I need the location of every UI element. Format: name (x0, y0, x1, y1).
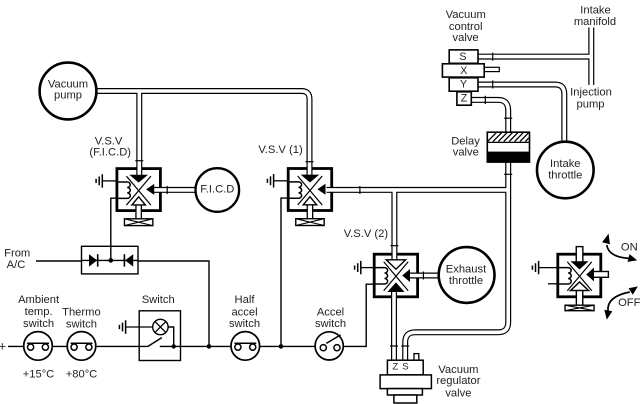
svg-text:regulator: regulator (436, 375, 480, 387)
svg-text:valve: valve (453, 147, 479, 159)
svg-text:V.S.V: V.S.V (95, 135, 123, 147)
svg-text:V.S.V (1): V.S.V (1) (258, 144, 303, 156)
svg-text:Y: Y (460, 79, 467, 91)
svg-text:Injection: Injection (570, 87, 612, 99)
svg-text:+: + (0, 339, 6, 354)
svg-text:throttle: throttle (449, 275, 483, 287)
svg-text:ON: ON (621, 242, 638, 254)
svg-text:Vacuum: Vacuum (446, 9, 486, 21)
svg-text:S: S (402, 362, 408, 373)
svg-text:OFF: OFF (618, 297, 640, 309)
svg-text:Ambient: Ambient (18, 294, 60, 306)
svg-text:X: X (460, 65, 467, 77)
svg-text:Vacuum: Vacuum (48, 78, 88, 90)
svg-text:(F.I.C.D): (F.I.C.D) (89, 147, 131, 159)
svg-text:throttle: throttle (548, 169, 582, 181)
svg-text:switch: switch (23, 318, 54, 330)
svg-text:F.I.C.D: F.I.C.D (200, 183, 234, 195)
svg-text:S: S (459, 51, 466, 63)
svg-text:Z: Z (461, 93, 468, 105)
svg-text:control: control (449, 21, 483, 33)
svg-text:V.S.V (2): V.S.V (2) (344, 228, 389, 240)
svg-text:switch: switch (229, 318, 260, 330)
svg-text:Intake: Intake (550, 158, 580, 170)
svg-text:switch: switch (66, 318, 97, 330)
svg-text:Thermo: Thermo (62, 306, 101, 318)
svg-text:accel: accel (231, 306, 257, 318)
svg-text:Switch: Switch (142, 294, 175, 306)
svg-text:Intake: Intake (580, 5, 610, 17)
svg-text:Vacuum: Vacuum (438, 364, 478, 376)
svg-text:A/C: A/C (7, 259, 26, 271)
svg-text:From: From (4, 248, 30, 260)
svg-text:Half: Half (235, 294, 256, 306)
svg-text:pump: pump (54, 90, 82, 102)
svg-text:Exhaust: Exhaust (446, 263, 487, 275)
svg-text:+15°C: +15°C (23, 369, 55, 381)
svg-text:+80°C: +80°C (66, 369, 98, 381)
svg-text:Z: Z (392, 362, 398, 373)
svg-text:valve: valve (453, 32, 479, 44)
svg-text:valve: valve (445, 388, 471, 400)
svg-text:pump: pump (577, 99, 605, 111)
svg-text:switch: switch (315, 318, 346, 330)
svg-text:Accel: Accel (317, 306, 344, 318)
svg-text:manifold: manifold (574, 16, 616, 28)
svg-text:temp.: temp. (25, 306, 53, 318)
